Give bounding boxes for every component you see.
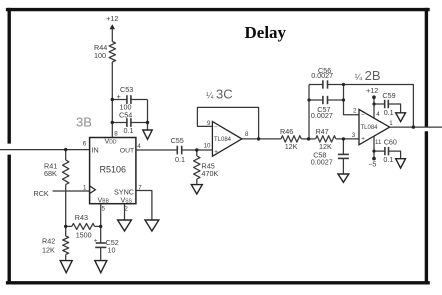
svg-text:8: 8 [245, 131, 249, 138]
svg-text:3B: 3B [76, 115, 92, 130]
svg-text:12K: 12K [42, 246, 55, 255]
svg-text:10: 10 [108, 246, 116, 255]
svg-text:1500: 1500 [76, 231, 92, 240]
svg-text:+: + [117, 92, 121, 101]
svg-text:12K: 12K [285, 142, 298, 151]
svg-text:0.1: 0.1 [384, 108, 394, 117]
svg-text:1: 1 [389, 120, 393, 127]
svg-text:+: + [214, 149, 218, 156]
svg-text:R42: R42 [42, 237, 55, 246]
svg-text:4: 4 [376, 111, 380, 118]
svg-text:IN: IN [92, 146, 99, 155]
svg-text:3: 3 [352, 132, 356, 139]
svg-text:7: 7 [138, 185, 142, 192]
svg-text:TL084: TL084 [361, 125, 379, 131]
svg-text:R5106: R5106 [100, 165, 127, 175]
svg-text:−: − [214, 124, 218, 131]
svg-text:100: 100 [94, 51, 106, 60]
svg-text:R46: R46 [280, 127, 293, 136]
svg-text:OUT: OUT [120, 148, 134, 155]
svg-text:TL084: TL084 [214, 137, 232, 143]
svg-text:−: − [361, 112, 365, 119]
svg-text:C60: C60 [384, 137, 397, 146]
svg-text:+: + [361, 136, 365, 143]
svg-text:RCK: RCK [34, 189, 49, 198]
svg-text:1: 1 [83, 185, 87, 192]
svg-text:0.1: 0.1 [124, 126, 134, 135]
svg-text:−5: −5 [368, 159, 376, 168]
svg-text:+12: +12 [106, 14, 118, 23]
svg-text:R43: R43 [75, 213, 88, 222]
svg-text:0.1: 0.1 [175, 155, 185, 164]
svg-text:6: 6 [83, 141, 87, 148]
svg-text:Delay: Delay [245, 23, 287, 42]
svg-text:0.1: 0.1 [383, 155, 393, 164]
svg-text:C59: C59 [382, 91, 395, 100]
svg-text:0.0027: 0.0027 [311, 71, 333, 80]
svg-text:0.0027: 0.0027 [311, 111, 333, 120]
svg-text:5: 5 [102, 206, 106, 213]
svg-text:R47: R47 [316, 127, 329, 136]
svg-text:10: 10 [204, 143, 211, 150]
svg-text:8: 8 [114, 131, 118, 138]
svg-text:C55: C55 [171, 136, 184, 145]
svg-text:C54: C54 [119, 111, 132, 120]
svg-text:+: + [94, 238, 98, 245]
svg-text:2: 2 [124, 206, 128, 213]
svg-text:2: 2 [353, 108, 357, 115]
svg-text:9: 9 [207, 120, 211, 127]
svg-text:4: 4 [137, 143, 141, 150]
svg-text:470K: 470K [202, 169, 219, 178]
svg-text:0.0027: 0.0027 [311, 157, 333, 166]
svg-text:+12: +12 [366, 86, 378, 95]
svg-text:11: 11 [375, 139, 382, 146]
svg-text:C53: C53 [120, 85, 133, 94]
svg-text:68K: 68K [44, 169, 57, 178]
